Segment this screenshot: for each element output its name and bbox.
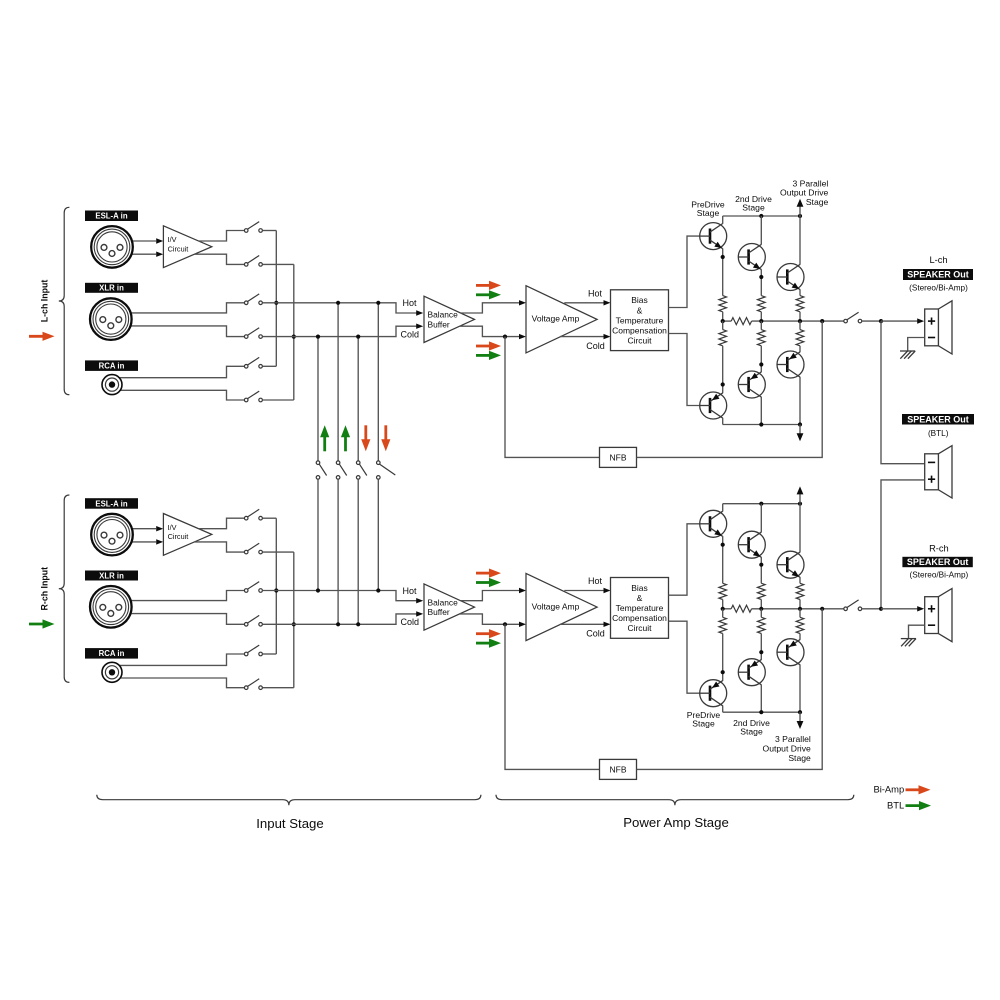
ground (R) bbox=[901, 639, 916, 647]
Cold label at Balance Buffer (L) bbox=[401, 330, 420, 340]
junction rail-top c3 (L) bbox=[798, 214, 802, 218]
arrowhead cold into Balance Buffer (L) bbox=[416, 324, 423, 329]
wire node to speaker (L) bbox=[881, 320, 918, 322]
XLR in connector (L) bbox=[90, 298, 132, 340]
cold line to Balance Buffer (L) bbox=[263, 326, 417, 336]
transistor PreDrive PNP (L) bbox=[700, 392, 727, 419]
svg-text:Compensation: Compensation bbox=[612, 325, 667, 335]
Voltage Amp text (R) bbox=[532, 601, 580, 611]
wire RCA cold (R) bbox=[112, 678, 244, 688]
wire res to mid rail c3 (L) bbox=[799, 312, 801, 321]
hot line to Balance Buffer (R) bbox=[263, 591, 417, 601]
junction L cold x358 bbox=[356, 335, 360, 339]
junction R cold x358 bbox=[356, 622, 360, 626]
svg-text:Circuit: Circuit bbox=[168, 532, 189, 541]
op-amp Balance Buffer (R) bbox=[424, 584, 475, 630]
Bias box text (L) bbox=[612, 295, 667, 345]
BTL arrow above hot (L) bbox=[476, 290, 501, 299]
positive rail (R) bbox=[723, 503, 800, 505]
XLR in connector (R) bbox=[90, 586, 132, 628]
switch XLR hot (L) bbox=[244, 294, 262, 305]
svg-text:Power Amp Stage: Power Amp Stage bbox=[623, 815, 729, 830]
BTL up arrow 2 bbox=[341, 425, 350, 451]
SPEAKER Out box (BTL) bbox=[902, 414, 974, 425]
junction mid rail c3 (R) bbox=[798, 607, 802, 611]
(Stereo/Bi-Amp) label (R) bbox=[910, 571, 969, 580]
wire speaker minus to ground (L) bbox=[908, 338, 925, 352]
wire L-cold to R-cold lower bbox=[357, 479, 359, 624]
svg-text:Circuit: Circuit bbox=[168, 245, 189, 254]
R-ch Input label bbox=[40, 567, 50, 611]
wire rail to switch (L) bbox=[843, 320, 845, 322]
wire I/V out to ESL cold switch (L) bbox=[194, 254, 244, 264]
BTL arrow below cold (R) bbox=[476, 639, 501, 648]
svg-text:Bias: Bias bbox=[631, 583, 648, 593]
wire switch to node (R) bbox=[862, 608, 881, 610]
wire ESL hot switch to hot bus (L) bbox=[263, 230, 277, 232]
wire L-cold to R-hot lower bbox=[317, 479, 319, 590]
RCA in connector (L) bbox=[102, 375, 122, 395]
wire mid rail to res c3 (R) bbox=[799, 609, 801, 618]
wire L node to BTL minus bbox=[881, 321, 925, 464]
resistor horizontal (L) bbox=[731, 318, 751, 325]
(BTL) label bbox=[928, 429, 949, 438]
junction rail-top c2 (L) bbox=[759, 214, 763, 218]
svg-text:I/V: I/V bbox=[168, 523, 177, 532]
svg-text:Bi-Amp: Bi-Amp bbox=[873, 784, 904, 795]
L-ch Input label bbox=[40, 280, 50, 323]
I/V Circuit text (L) bbox=[168, 235, 189, 253]
Voltage Amp text (L) bbox=[532, 314, 580, 324]
wire Q1 emitter column (R) bbox=[722, 536, 724, 583]
resistor bottom c3 (R) bbox=[796, 617, 804, 633]
svg-text:SPEAKER Out: SPEAKER Out bbox=[907, 414, 969, 424]
SPEAKER Out box (L) bbox=[903, 269, 973, 280]
3 Parallel Output Drive Stage label (R) bbox=[763, 734, 811, 763]
wire Q5 collector (L) bbox=[760, 397, 762, 425]
Bias box (R) bbox=[611, 578, 669, 639]
junction Q6 base tap (R) bbox=[759, 650, 763, 654]
junction cold bus (L) bbox=[292, 335, 296, 339]
2nd Drive Stage label (L) bbox=[735, 194, 772, 213]
svg-text:NFB: NFB bbox=[610, 765, 627, 775]
Hot label at Bias (L) bbox=[588, 289, 603, 299]
arrowhead hot into Balance Buffer (L) bbox=[416, 310, 423, 315]
Power Amp Stage brace bbox=[496, 795, 854, 806]
output mid rail (R) bbox=[752, 608, 844, 610]
wire mid rail to res c2 (R) bbox=[760, 609, 762, 618]
wire Q3 collector (L) bbox=[799, 216, 801, 265]
junction mid rail nfb (L) bbox=[820, 319, 824, 323]
ESL-A XLR connector (L) bbox=[91, 226, 133, 268]
resistor top c2 (L) bbox=[758, 296, 766, 312]
junction mid rail c2 (R) bbox=[759, 607, 763, 611]
junction R cold x338 bbox=[336, 622, 340, 626]
wire BB out hot (R) bbox=[461, 591, 519, 601]
op-amp Voltage Amp (L) bbox=[526, 286, 597, 353]
svg-text:Input Stage: Input Stage bbox=[256, 816, 323, 831]
ESL-A XLR connector (R) bbox=[91, 514, 133, 556]
wire XLR hot (R) bbox=[111, 591, 245, 601]
wire L-hot to R-cold upper bbox=[337, 303, 339, 461]
wire I/V out to ESL hot switch (L) bbox=[199, 231, 245, 242]
wire L-cold to R-hot upper bbox=[317, 337, 319, 461]
junction Q6 base tap (L) bbox=[759, 362, 763, 366]
arrowhead into speaker (L) bbox=[917, 318, 924, 323]
svg-text:RCA in: RCA in bbox=[99, 649, 125, 658]
Bi-Amp arrow above hot (R) bbox=[476, 569, 501, 578]
svg-text:Stage: Stage bbox=[697, 208, 720, 218]
cold line to Balance Buffer (R) bbox=[263, 614, 417, 624]
positive rail (L) bbox=[723, 215, 800, 217]
svg-text:Output Drive: Output Drive bbox=[763, 743, 811, 753]
svg-text:NFB: NFB bbox=[610, 453, 627, 463]
switch XLR cold (R) bbox=[244, 615, 262, 626]
junction L cold x318 bbox=[316, 335, 320, 339]
selector switch L-hot to R-hot bbox=[377, 461, 396, 479]
wire XLR cold (L) bbox=[111, 326, 245, 337]
Bi-Amp arrow below cold (L) bbox=[476, 341, 501, 350]
svg-text:R-ch: R-ch bbox=[929, 543, 949, 553]
wire Q5 collector (R) bbox=[760, 685, 762, 713]
2nd Drive Stage label (R) bbox=[733, 718, 770, 737]
junction NFB tap (R) bbox=[503, 622, 507, 626]
svg-text:SPEAKER Out: SPEAKER Out bbox=[907, 270, 969, 280]
arrowhead hot into Bias (R) bbox=[604, 588, 611, 593]
svg-text:Temperature: Temperature bbox=[616, 603, 664, 613]
svg-text:Hot: Hot bbox=[588, 576, 603, 586]
junction L hot x378 bbox=[376, 301, 380, 305]
svg-text:Buffer: Buffer bbox=[428, 607, 450, 617]
wire I/V out to ESL cold switch (R) bbox=[194, 542, 244, 552]
arrowhead into I/V hot (R) bbox=[156, 526, 163, 531]
svg-text:Stage: Stage bbox=[742, 202, 765, 212]
Bi-Amp down arrow 1 bbox=[361, 425, 370, 451]
hot select bus (L) bbox=[275, 231, 277, 367]
svg-text:Voltage Amp: Voltage Amp bbox=[532, 314, 580, 324]
XLR in label (L) bbox=[85, 283, 138, 293]
resistor bottom c2 (L) bbox=[758, 330, 766, 346]
Bias box (L) bbox=[611, 290, 669, 351]
junction mid rail c2 (L) bbox=[759, 319, 763, 323]
L-ch Input brace bbox=[59, 207, 70, 394]
junction mid rail nfb (R) bbox=[820, 607, 824, 611]
transistor 2nd Drive PNP (R) bbox=[738, 659, 765, 686]
wire RCA cold (L) bbox=[112, 390, 244, 400]
wire Q3 collector (R) bbox=[799, 504, 801, 553]
svg-text:Temperature: Temperature bbox=[616, 315, 664, 325]
switch ESL cold (R) bbox=[244, 543, 262, 554]
wire Bias to PreDrive bottom base (L) bbox=[669, 334, 700, 406]
junction Q3 base tap (L) bbox=[759, 275, 763, 279]
wire BB out cold (L) bbox=[459, 326, 519, 336]
transistor Output PNP (L) bbox=[777, 351, 804, 378]
wire switch to node (L) bbox=[862, 320, 881, 322]
junction Q2 base tap (L) bbox=[721, 255, 725, 259]
Balance Buffer text (L) bbox=[428, 310, 459, 330]
output mid rail left (L) bbox=[723, 320, 732, 322]
wire BB out cold (R) bbox=[459, 614, 519, 624]
svg-text:Hot: Hot bbox=[588, 289, 603, 299]
wire L-hot to R-hot lower bbox=[377, 479, 379, 590]
arrowhead cold into Voltage Amp (L) bbox=[519, 334, 526, 339]
svg-text:Voltage Amp: Voltage Amp bbox=[532, 601, 580, 611]
R-ch Input brace bbox=[59, 495, 70, 682]
wire VA out hot (L) bbox=[564, 302, 604, 304]
BTL arrow below cold (L) bbox=[476, 351, 501, 360]
3 Parallel Output Drive Stage label (L) bbox=[780, 178, 828, 207]
arrowhead into I/V cold (L) bbox=[156, 252, 163, 257]
wire NFB right (L) bbox=[637, 321, 823, 457]
(Stereo/Bi-Amp) label (L) bbox=[909, 283, 968, 292]
junction rail-top c2 (R) bbox=[759, 502, 763, 506]
transistor 2nd Drive PNP (L) bbox=[738, 371, 765, 398]
svg-text:(BTL): (BTL) bbox=[928, 429, 949, 438]
svg-text:(Stereo/Bi-Amp): (Stereo/Bi-Amp) bbox=[910, 571, 969, 580]
output mid rail (L) bbox=[752, 320, 844, 322]
wire speaker minus to ground (R) bbox=[909, 625, 925, 638]
switch ESL cold (L) bbox=[244, 256, 262, 267]
wire NFB right (R) bbox=[637, 609, 823, 770]
wire Q2 collector (L) bbox=[760, 216, 762, 245]
speaker symbol (BTL) bbox=[925, 446, 952, 498]
wire ESL cold switch to cold bus (R) bbox=[263, 551, 294, 553]
svg-text:Circuit: Circuit bbox=[627, 623, 652, 633]
Bi-Amp legend label bbox=[873, 784, 904, 795]
arrowhead hot into Bias (L) bbox=[604, 300, 611, 305]
wire Q5 emitter column (R) bbox=[760, 634, 762, 660]
arrowhead hot into Balance Buffer (R) bbox=[416, 598, 423, 603]
wire Q3 emitter column (L) bbox=[799, 289, 801, 295]
wire Q4 emitter column (L) bbox=[722, 346, 724, 393]
wire ESL-A to I/V hot (R) bbox=[112, 528, 156, 530]
wire Q5 emitter column (L) bbox=[760, 346, 762, 372]
svg-text:ESL-A in: ESL-A in bbox=[95, 499, 127, 508]
wire RCA hot switch to hot bus (R) bbox=[263, 653, 277, 655]
wire Q4 emitter column (R) bbox=[722, 634, 724, 681]
speaker symbol (L) bbox=[925, 301, 952, 354]
junction mid rail c1 (R) bbox=[721, 607, 725, 611]
svg-text:&: & bbox=[637, 593, 643, 603]
wire Bias to PreDrive top base (R) bbox=[669, 524, 700, 595]
svg-text:Bias: Bias bbox=[631, 295, 648, 305]
Balance Buffer text (R) bbox=[428, 597, 459, 617]
wire res to mid rail c2 (R) bbox=[760, 600, 762, 609]
wire Q6 emitter column (R) bbox=[799, 634, 801, 640]
wire ESL hot switch to hot bus (R) bbox=[263, 517, 277, 519]
svg-text:Cold: Cold bbox=[586, 341, 605, 351]
arrowhead hot into Voltage Amp (L) bbox=[519, 300, 526, 305]
junction NFB tap (L) bbox=[503, 335, 507, 339]
svg-text:RCA in: RCA in bbox=[99, 361, 125, 370]
cold select bus (L) bbox=[293, 264, 295, 400]
wire Q2 emitter column (R) bbox=[760, 557, 762, 583]
wire BTL plus to R node bbox=[881, 480, 925, 609]
BTL up arrow 1 bbox=[320, 425, 329, 451]
wire L-cold to R-cold upper bbox=[357, 337, 359, 461]
svg-text:Buffer: Buffer bbox=[428, 319, 450, 329]
resistor top c3 (L) bbox=[796, 296, 804, 312]
output mid rail left (R) bbox=[723, 608, 732, 610]
negative rail (L) bbox=[723, 424, 800, 426]
svg-text:Hot: Hot bbox=[402, 298, 417, 308]
wire res to mid rail c1 (L) bbox=[722, 312, 724, 321]
SPEAKER Out box (R) bbox=[902, 557, 972, 567]
svg-text:Hot: Hot bbox=[402, 586, 417, 596]
Bi-Amp legend arrow bbox=[906, 785, 931, 794]
arrowhead cold into Balance Buffer (R) bbox=[416, 611, 423, 616]
resistor bottom c3 (L) bbox=[796, 330, 804, 346]
hot line to Balance Buffer (L) bbox=[263, 303, 417, 313]
wire RCA hot switch to hot bus (L) bbox=[263, 365, 277, 367]
RCA in label (R) bbox=[85, 648, 138, 659]
svg-text:Compensation: Compensation bbox=[612, 613, 667, 623]
svg-text:Balance: Balance bbox=[428, 597, 459, 607]
switch XLR hot (R) bbox=[244, 582, 262, 593]
svg-text:Stage: Stage bbox=[788, 753, 811, 763]
switch ESL hot (L) bbox=[244, 222, 262, 233]
wire mid rail to res c2 (L) bbox=[760, 321, 762, 330]
junction rail-top c3 (R) bbox=[798, 502, 802, 506]
supply up arrow (L) bbox=[797, 199, 804, 216]
svg-text:Circuit: Circuit bbox=[627, 335, 652, 345]
speaker switch (L) bbox=[844, 312, 862, 323]
PreDrive Stage label (R) bbox=[687, 710, 721, 729]
Hot label at Bias (R) bbox=[588, 576, 603, 586]
transistor Output NPN (R) bbox=[777, 551, 804, 578]
wire Q1 emitter column (L) bbox=[722, 248, 724, 295]
wire XLR cold (R) bbox=[111, 614, 245, 625]
wire NFB left (L) bbox=[505, 337, 600, 458]
wire RCA hot (R) bbox=[112, 654, 244, 665]
junction R hot x318 bbox=[316, 588, 320, 592]
svg-text:SPEAKER Out: SPEAKER Out bbox=[907, 557, 969, 567]
arrowhead into I/V hot (L) bbox=[156, 238, 163, 243]
resistor top c1 (L) bbox=[719, 296, 727, 312]
transistor 2nd Drive NPN (L) bbox=[738, 244, 765, 271]
selector switch L-cold to R-cold bbox=[356, 461, 366, 479]
junction Q3 base tap (R) bbox=[759, 563, 763, 567]
arrowhead cold into Voltage Amp (R) bbox=[519, 622, 526, 627]
wire mid rail to res c1 (L) bbox=[722, 321, 724, 330]
svg-text:Cold: Cold bbox=[401, 617, 420, 627]
junction rail-bot c2 (L) bbox=[759, 422, 763, 426]
wire Q6 collector (R) bbox=[799, 665, 801, 713]
wire Q4 collector (L) bbox=[722, 418, 724, 425]
junction rail-bot c3 (L) bbox=[798, 422, 802, 426]
svg-text:BTL: BTL bbox=[887, 800, 904, 811]
arrowhead cold into Bias (L) bbox=[604, 334, 611, 339]
junction rail-bot c3 (R) bbox=[798, 710, 802, 714]
Bi-Amp arrow above hot (L) bbox=[476, 281, 501, 290]
junction Q5 base tap (R) bbox=[721, 670, 725, 674]
wire Q2 emitter column (L) bbox=[760, 269, 762, 295]
NFB box (L) bbox=[600, 447, 637, 467]
resistor bottom c2 (R) bbox=[758, 617, 766, 633]
junction hot bus (L) bbox=[274, 301, 278, 305]
arrowhead into speaker (R) bbox=[917, 606, 924, 611]
wire Q3 emitter column (R) bbox=[799, 577, 801, 583]
Cold label at Bias (R) bbox=[586, 629, 605, 639]
resistor top c2 (R) bbox=[758, 583, 766, 599]
ground (L) bbox=[900, 351, 915, 359]
op-amp I/V Circuit (R) bbox=[163, 514, 211, 556]
ESL-A in label (R) bbox=[85, 498, 138, 509]
junction hot bus (R) bbox=[274, 588, 278, 592]
svg-text:Cold: Cold bbox=[586, 629, 605, 639]
svg-text:&: & bbox=[637, 305, 643, 315]
wire Q6 emitter column (L) bbox=[799, 346, 801, 352]
switch ESL hot (R) bbox=[244, 509, 262, 520]
switch RCA hot (L) bbox=[244, 357, 262, 368]
Cold label at Bias (L) bbox=[586, 341, 605, 351]
wire RCA cold switch to cold bus (L) bbox=[263, 399, 294, 401]
PreDrive Stage label (L) bbox=[691, 199, 725, 218]
wire ESL-A to I/V hot (L) bbox=[112, 240, 156, 242]
Hot label at Balance Buffer (R) bbox=[402, 586, 417, 596]
junction mid rail c1 (L) bbox=[721, 319, 725, 323]
I/V Circuit text (R) bbox=[168, 523, 189, 541]
wire I/V out to ESL hot switch (R) bbox=[199, 518, 245, 529]
supply down arrow (L) bbox=[797, 425, 804, 442]
ESL-A in label (L) bbox=[85, 211, 138, 222]
wire NFB left (R) bbox=[505, 624, 600, 769]
arrowhead cold into Bias (R) bbox=[604, 622, 611, 627]
wire VA out hot (R) bbox=[564, 590, 604, 592]
switch XLR cold (L) bbox=[244, 328, 262, 339]
transistor Output PNP (R) bbox=[777, 639, 804, 666]
BTL arrow above hot (R) bbox=[476, 578, 501, 587]
wire VA out cold (R) bbox=[560, 623, 604, 625]
svg-text:Stage: Stage bbox=[740, 726, 763, 736]
svg-text:R-ch Input: R-ch Input bbox=[40, 567, 50, 611]
junction rail-bot c2 (R) bbox=[759, 710, 763, 714]
supply up arrow (R) bbox=[797, 486, 804, 503]
wire XLR hot (L) bbox=[111, 303, 245, 313]
negative rail (R) bbox=[723, 711, 800, 713]
transistor PreDrive NPN (L) bbox=[700, 223, 727, 250]
wire ESL-A to I/V cold (L) bbox=[112, 253, 156, 255]
svg-text:XLR in: XLR in bbox=[99, 571, 124, 580]
svg-text:Stage: Stage bbox=[692, 719, 715, 729]
wire Q6 collector (L) bbox=[799, 377, 801, 425]
Power Amp Stage label bbox=[623, 815, 729, 830]
R-ch label bbox=[929, 543, 949, 553]
arrowhead hot into Voltage Amp (R) bbox=[519, 588, 526, 593]
R-ch input mode arrow bbox=[29, 619, 55, 628]
resistor top c3 (R) bbox=[796, 583, 804, 599]
wire Bias to PreDrive bottom base (R) bbox=[669, 621, 700, 693]
junction mid rail c3 (L) bbox=[798, 319, 802, 323]
resistor bottom c1 (L) bbox=[719, 330, 727, 346]
junction L hot x338 bbox=[336, 301, 340, 305]
wire Q4 collector (R) bbox=[722, 706, 724, 713]
junction Q5 base tap (L) bbox=[721, 382, 725, 386]
transistor PreDrive NPN (R) bbox=[700, 510, 727, 537]
switch RCA hot (R) bbox=[244, 645, 262, 656]
wire Q2 collector (R) bbox=[760, 504, 762, 533]
L-ch label bbox=[929, 255, 947, 265]
resistor top c1 (R) bbox=[719, 583, 727, 599]
Cold label at Balance Buffer (R) bbox=[401, 617, 420, 627]
supply down arrow (R) bbox=[797, 712, 804, 729]
NFB box (R) bbox=[600, 759, 637, 779]
resistor horizontal (R) bbox=[731, 605, 751, 612]
wire ESL cold switch to cold bus (L) bbox=[263, 263, 294, 265]
Bi-Amp down arrow 2 bbox=[381, 425, 390, 451]
selector switch L-cold to R-hot bbox=[316, 461, 326, 479]
op-amp Balance Buffer (L) bbox=[424, 296, 475, 342]
